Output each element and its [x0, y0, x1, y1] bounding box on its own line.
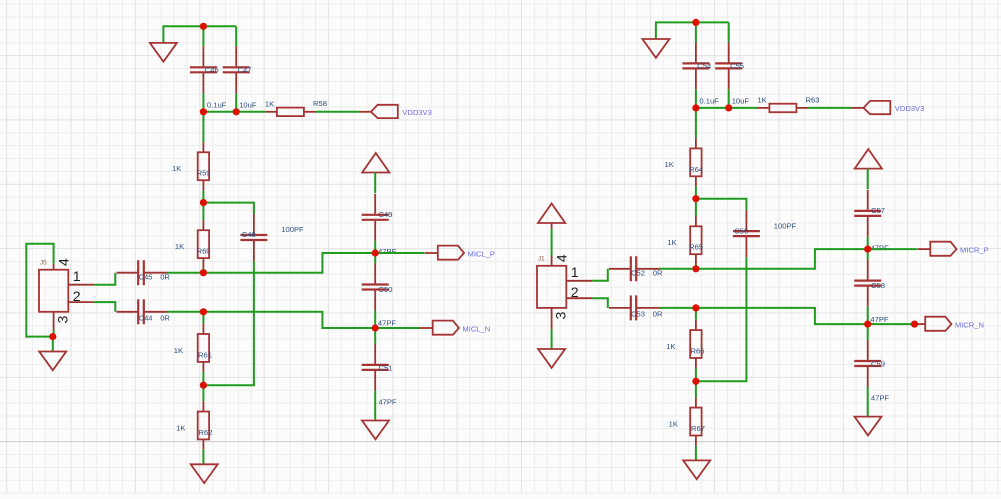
svg-text:0R: 0R: [160, 313, 170, 322]
value label 1K of R60: [175, 242, 184, 251]
ref label R58: [313, 99, 327, 108]
svg-text:0.1uF: 0.1uF: [207, 101, 227, 110]
junction node C54/R63: [692, 104, 699, 111]
wire pin2 to C44: [94, 302, 115, 312]
wire R59 to mid node: [202, 191, 204, 203]
value label 1K of R63: [757, 96, 766, 105]
wire power to C57: [867, 169, 869, 190]
wire lower node to R62: [202, 385, 204, 401]
svg-text:47PF: 47PF: [378, 398, 397, 407]
wire C56 bottom to lower node: [696, 257, 747, 381]
wire MICR_N to C59: [867, 324, 869, 340]
value label 1K of R62: [176, 423, 185, 432]
wire top rail VDD: [163, 26, 236, 43]
pin number 2 of J1: [571, 285, 579, 301]
junction MICR_N node at R66: [692, 304, 699, 311]
capacitor C46 0.1uF: [190, 46, 219, 93]
resistor R63 body: [757, 104, 808, 113]
svg-text:1K: 1K: [669, 419, 678, 428]
wire MICR_P run to filter column: [696, 249, 868, 269]
net port VDD3V3: [359, 105, 432, 118]
wire C49 to MICL_P: [374, 241, 376, 253]
svg-text:R66: R66: [691, 347, 705, 356]
power pin of flag above J1: [551, 223, 553, 229]
wire R64 to mid node: [695, 187, 697, 199]
value label 100PF of C56: [774, 221, 797, 230]
value label 47PF of C57: [871, 243, 890, 252]
value label 0.1uF of C46: [207, 101, 227, 110]
value label 1K of R65: [667, 238, 676, 247]
wire MICL_P to port: [375, 252, 424, 254]
capacitor C45 0R: [117, 260, 171, 285]
svg-text:R60: R60: [197, 247, 211, 256]
capacitor C58: [854, 260, 885, 307]
svg-text:C52: C52: [631, 268, 645, 277]
wire mid node to R65: [695, 199, 697, 216]
value label 47PF of C51: [378, 398, 397, 407]
value label 47PF of C49: [378, 247, 397, 256]
junction MICR_P node at R65: [692, 265, 699, 272]
svg-text:C45: C45: [139, 272, 153, 281]
svg-text:1K: 1K: [176, 423, 185, 432]
svg-text:4: 4: [555, 254, 571, 262]
junction node C46/R58: [200, 108, 207, 115]
resistor R62 body: [198, 401, 209, 450]
value label 1K of R66: [666, 342, 675, 351]
connector J5: [39, 270, 68, 312]
junction MICL_P node at R60: [200, 269, 207, 276]
wire C57 to MICR_P: [867, 237, 869, 249]
ref label R67: [691, 424, 705, 433]
ref label R61: [198, 350, 212, 359]
capacitor C49: [362, 194, 393, 241]
wire pin1 to C52: [592, 269, 608, 281]
ground below R62: [191, 464, 218, 483]
capacitor C50: [362, 264, 393, 311]
pin 1 stub of J5: [68, 284, 94, 286]
wire C53 to MICR_N node: [659, 307, 696, 309]
svg-text:R59: R59: [197, 169, 211, 178]
svg-text:C57: C57: [871, 206, 885, 215]
wire C46 top lead: [202, 26, 204, 46]
svg-text:C47: C47: [238, 66, 252, 75]
wire R62 to ground: [202, 450, 204, 465]
svg-text:0.1uF: 0.1uF: [699, 97, 719, 106]
wire lower node to R67: [695, 381, 697, 397]
net port MICR_N: [912, 317, 984, 331]
ref label R64: [689, 165, 703, 174]
svg-text:VDD3V3: VDD3V3: [402, 108, 432, 117]
ground below C51: [362, 421, 389, 440]
capacitor C44 0R: [117, 299, 171, 324]
power flag above J1 pin4: [538, 204, 565, 224]
resistor R58 body: [265, 108, 316, 117]
svg-text:C48: C48: [242, 230, 256, 239]
junction node C55: [725, 104, 732, 111]
value label 47PF of C59: [871, 394, 890, 403]
value label 100PF of C48: [281, 225, 304, 234]
svg-text:1K: 1K: [666, 342, 675, 351]
net port MICR_P: [917, 242, 988, 256]
svg-text:VDD3V3: VDD3V3: [895, 104, 925, 113]
wire R61 to lower node: [202, 372, 204, 385]
ground below C59: [855, 417, 882, 436]
junction MICR_N stub: [911, 321, 918, 328]
capacitor C51: [362, 344, 393, 391]
wire pin3 to ground node: [53, 330, 55, 337]
resistor R67 body: [690, 397, 701, 446]
wire MICR_N run to filter column: [696, 308, 868, 324]
wire R67 to ground: [695, 446, 697, 461]
ground at top rail VDD: [150, 43, 177, 62]
junction pin3/pin4 ground node: [49, 333, 56, 340]
svg-text:1K: 1K: [667, 238, 676, 247]
wire MICR_N to port: [868, 323, 913, 325]
pin 4 stub of J5: [53, 264, 55, 270]
wire pin4 to power flag: [551, 229, 553, 256]
svg-text:C56: C56: [734, 226, 748, 235]
wire MICR_P to port: [868, 248, 917, 250]
wire C45 to MICL_P node: [167, 272, 204, 274]
svg-text:47PF: 47PF: [871, 243, 890, 252]
resistor R64 body: [690, 138, 701, 187]
wire pin4 loop to pin3 node: [26, 244, 53, 337]
value label 1K of R58: [265, 100, 274, 109]
value label 47PF of C58: [870, 315, 889, 324]
junction lower node R61/R62/C48: [200, 382, 207, 389]
wire MICL_N run to filter column: [203, 312, 375, 328]
svg-text:3: 3: [56, 315, 72, 323]
svg-text:J1: J1: [538, 255, 545, 262]
ref label J5: [40, 259, 47, 266]
junction mid node R59/R60/C48: [200, 199, 207, 206]
svg-text:C51: C51: [379, 364, 393, 373]
capacitor C56: [733, 210, 760, 257]
wire pin3 to ground: [551, 329, 553, 349]
resistor R60 body: [198, 220, 209, 269]
wire MICL_P to C50: [374, 253, 376, 264]
ref label R62: [199, 428, 213, 437]
wire pin2 to C53: [592, 298, 608, 308]
pin number 1 of J1: [571, 265, 579, 281]
svg-text:R58: R58: [313, 99, 327, 108]
wire node to R59: [202, 112, 204, 142]
net port MICL_N: [420, 321, 491, 335]
ref label R63: [806, 95, 820, 104]
svg-text:R65: R65: [689, 243, 703, 252]
value label 1K of R59: [172, 164, 181, 173]
pin number 2 of J5: [73, 289, 81, 305]
junction node C47: [233, 108, 240, 115]
power flag at C49 column: [362, 153, 389, 173]
svg-text:1: 1: [571, 265, 579, 281]
net port MICL_P: [425, 246, 495, 260]
wire pin1 to C45: [94, 273, 115, 285]
ground below J1: [538, 349, 565, 368]
junction top rail / C54: [692, 19, 699, 26]
wire C47 bottom lead: [235, 93, 237, 112]
svg-text:100PF: 100PF: [774, 221, 797, 230]
ref label R59: [197, 169, 211, 178]
wire MICL_N to port: [375, 327, 420, 329]
svg-text:R67: R67: [691, 424, 705, 433]
wire MICR_N node to R66: [695, 308, 697, 320]
wire top rail VDD: [656, 22, 729, 39]
wire R66 to lower node: [695, 368, 697, 381]
wire R63 to VDD3V3 port: [808, 107, 851, 109]
wire C47 top lead: [235, 26, 237, 46]
net port VDD3V3: [852, 101, 925, 114]
connector J1: [537, 266, 566, 308]
pin number 3 of J5: [56, 315, 72, 323]
svg-text:C53: C53: [631, 310, 645, 319]
junction top rail / C46: [200, 23, 207, 30]
svg-text:MICL_N: MICL_N: [462, 324, 490, 333]
svg-text:C50: C50: [379, 285, 393, 294]
value label 47PF of C50: [378, 319, 397, 328]
ref label J1: [538, 255, 545, 262]
svg-text:1K: 1K: [757, 96, 766, 105]
pin 3 stub of J1: [551, 308, 553, 329]
svg-text:1K: 1K: [174, 346, 183, 355]
svg-text:R62: R62: [199, 428, 213, 437]
pin number 4 of J5: [57, 258, 73, 266]
wire mid node to C56: [696, 199, 747, 210]
junction MICR_N at C58: [864, 321, 871, 328]
wire VDD rail to R63: [696, 107, 758, 109]
junction MICL_N node at R61: [200, 308, 207, 315]
svg-text:J5: J5: [40, 259, 47, 266]
capacitor C48: [240, 214, 267, 261]
svg-text:10uF: 10uF: [732, 97, 750, 106]
value label 1K of R61: [174, 346, 183, 355]
wire C54 bottom lead: [695, 89, 697, 108]
wire MICL_N to C51: [374, 328, 376, 344]
svg-text:R63: R63: [806, 95, 820, 104]
svg-text:10uF: 10uF: [239, 101, 257, 110]
svg-text:C58: C58: [871, 281, 885, 290]
wire mid node to C48: [203, 203, 254, 214]
svg-text:MICL_P: MICL_P: [468, 249, 495, 258]
svg-text:47PF: 47PF: [378, 319, 397, 328]
svg-text:47PF: 47PF: [870, 315, 889, 324]
junction MICL_P at C49: [372, 249, 379, 256]
wire C48 bottom to lower node: [203, 261, 254, 385]
value label 1K of R67: [669, 419, 678, 428]
svg-text:47PF: 47PF: [871, 394, 890, 403]
pin 2 stub of J5: [68, 301, 94, 303]
svg-text:3: 3: [554, 312, 570, 320]
wire C44 to MICL_N node: [167, 311, 204, 313]
capacitor C52 0R: [609, 256, 663, 281]
wire C59 to ground: [867, 387, 869, 417]
capacitor C55 10uF: [715, 42, 744, 89]
pin number 4 of J1: [555, 254, 571, 262]
wire R60 to MICL_P node: [202, 268, 204, 272]
value label 10uF of C47: [239, 101, 257, 110]
capacitor C57: [854, 190, 885, 237]
svg-text:C59: C59: [871, 360, 885, 369]
svg-text:C49: C49: [379, 210, 393, 219]
power flag at C57 column: [855, 149, 882, 169]
ground below J5: [39, 352, 66, 371]
wire C46 bottom lead: [202, 93, 204, 112]
junction MICL_N at C50: [372, 324, 379, 331]
wire ground node to ground: [52, 337, 54, 352]
svg-text:C44: C44: [139, 313, 153, 322]
wire VDD rail to R58: [203, 111, 265, 113]
capacitor C53 0R: [609, 295, 663, 320]
value label 0.1uF of C54: [699, 97, 719, 106]
wire MICL_N node to R61: [202, 312, 204, 324]
resistor R66 body: [690, 320, 701, 369]
wire R58 to VDD3V3 port: [316, 111, 359, 113]
resistor R65 body: [690, 216, 701, 265]
svg-text:C55: C55: [730, 62, 744, 71]
ref label R60: [197, 247, 211, 256]
ref label R66: [691, 347, 705, 356]
svg-text:47PF: 47PF: [378, 247, 397, 256]
capacitor C59: [854, 340, 885, 387]
svg-text:1: 1: [73, 269, 81, 285]
capacitor C54 0.1uF: [682, 42, 711, 89]
junction mid node R64/R65/C56: [692, 195, 699, 202]
svg-text:1K: 1K: [172, 164, 181, 173]
resistor R59 body: [198, 142, 209, 191]
pin 4 stub of J1: [551, 256, 553, 266]
junction lower node R66/R67/C56: [692, 378, 699, 385]
svg-text:MICR_P: MICR_P: [960, 246, 989, 255]
pin 1 stub of J1: [566, 280, 592, 282]
wire C55 bottom lead: [728, 89, 730, 108]
capacitor C47 10uF: [223, 46, 252, 93]
resistor R61 body: [198, 324, 209, 373]
junction MICR_P at C57: [864, 246, 871, 253]
wire C55 top lead: [728, 22, 730, 42]
ref label R65: [689, 243, 703, 252]
wire C58 to MICR_N: [867, 307, 869, 325]
wire C52 to MICR_P node: [659, 268, 696, 270]
svg-text:0R: 0R: [653, 310, 663, 319]
svg-text:R64: R64: [689, 165, 703, 174]
value label 10uF of C55: [732, 97, 750, 106]
ground at top rail VDD: [642, 39, 669, 58]
value label 1K of R64: [665, 160, 674, 169]
svg-text:MICR_N: MICR_N: [955, 321, 984, 330]
ground below R67: [683, 460, 710, 479]
svg-text:C46: C46: [205, 66, 219, 75]
pin number 1 of J5: [73, 269, 81, 285]
svg-text:100PF: 100PF: [281, 225, 304, 234]
wire power to C49: [374, 173, 376, 194]
svg-text:C54: C54: [697, 62, 711, 71]
wire MICL_P run to filter column: [203, 253, 375, 273]
wire C54 top lead: [695, 22, 697, 42]
wire node to R64: [695, 108, 697, 138]
svg-text:R61: R61: [198, 350, 212, 359]
pin 2 stub of J1: [566, 297, 592, 299]
pin 3 stub of J5: [53, 312, 55, 330]
svg-text:4: 4: [57, 258, 73, 266]
wire R65 to MICR_P node: [695, 265, 697, 269]
svg-text:1K: 1K: [175, 242, 184, 251]
pin number 3 of J1: [554, 312, 570, 320]
svg-text:1K: 1K: [665, 160, 674, 169]
wire MICR_P to C58: [867, 249, 869, 260]
wire C50 to MICL_N: [374, 311, 376, 329]
wire mid node to R60: [202, 203, 204, 220]
svg-text:1K: 1K: [265, 100, 274, 109]
wire C51 to ground: [374, 391, 376, 421]
